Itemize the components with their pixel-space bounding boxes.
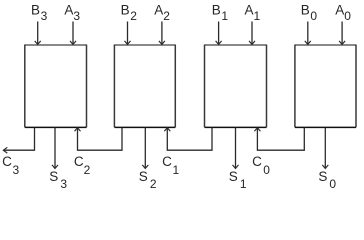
full-adder block FA3 — [25, 45, 87, 128]
wire carry C1 from FA1 to FA2 — [164, 128, 212, 151]
svg-text:B1: B1 — [212, 3, 229, 24]
full-adder block FA1 — [205, 45, 267, 128]
svg-text:A0: A0 — [335, 3, 351, 24]
svg-text:A3: A3 — [64, 3, 80, 24]
svg-text:C1: C1 — [162, 154, 179, 177]
svg-text:B3: B3 — [31, 3, 48, 24]
wire input A3 — [70, 22, 76, 45]
svg-text:A1: A1 — [245, 3, 261, 24]
svg-text:A2: A2 — [154, 3, 170, 24]
wire input A0 — [339, 22, 345, 45]
svg-text:B0: B0 — [301, 3, 318, 24]
wire carry-out C3 — [3, 128, 34, 154]
svg-text:S2: S2 — [139, 169, 157, 191]
wire sum output S0 — [322, 128, 328, 169]
wire input B1 — [216, 22, 222, 45]
wire input A1 — [249, 22, 255, 45]
svg-text:S0: S0 — [318, 169, 336, 191]
wire sum output S1 — [233, 128, 239, 169]
wire sum output S2 — [142, 128, 148, 169]
svg-text:S3: S3 — [49, 169, 67, 191]
svg-text:C0: C0 — [252, 154, 270, 177]
wire input B2 — [125, 22, 131, 45]
full-adder block FA0 — [295, 45, 356, 128]
svg-text:C3: C3 — [2, 154, 19, 177]
wire input A2 — [159, 22, 165, 45]
wire carry C0 from FA0 to FA1 — [254, 128, 304, 151]
wire input B3 — [35, 22, 41, 45]
svg-text:B2: B2 — [121, 3, 138, 24]
wire carry C2 from FA2 to FA3 — [75, 128, 123, 151]
wire sum output S3 — [52, 128, 58, 169]
svg-text:S1: S1 — [229, 169, 247, 191]
wire input B0 — [305, 22, 311, 45]
full-adder block FA2 — [114, 45, 175, 128]
svg-text:C2: C2 — [74, 154, 91, 177]
